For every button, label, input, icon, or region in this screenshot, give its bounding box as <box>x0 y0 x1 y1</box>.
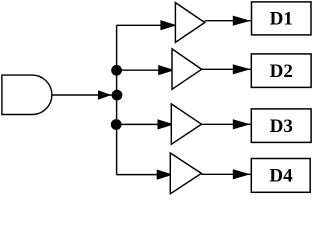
box D2 <box>251 54 311 88</box>
wire bus to buffer 4 with arrowhead <box>117 170 174 180</box>
box D4 <box>251 159 310 193</box>
wire buffer 2 to box D2 with arrowhead <box>202 64 251 74</box>
svg-text:D4: D4 <box>269 166 293 187</box>
wire buffer 3 to box D3 with arrowhead <box>202 119 251 129</box>
buffer 1 <box>175 3 204 43</box>
box D1 <box>252 2 312 35</box>
wire vertical bus <box>116 25 118 174</box>
wire bus to buffer 3 with arrowhead <box>117 119 174 129</box>
svg-text:D2: D2 <box>270 61 293 82</box>
junction dot lower <box>111 119 122 130</box>
AND gate <box>2 75 52 114</box>
wire gate output to bus with arrowhead <box>52 90 112 100</box>
box D3 <box>251 109 311 142</box>
buffer 3 <box>171 104 201 144</box>
junction dot upper <box>111 65 122 76</box>
wire bus to buffer 2 with arrowhead <box>117 65 175 75</box>
wire buffer 1 to box D1 with arrowhead <box>205 16 251 26</box>
buffer 2 <box>172 49 202 89</box>
junction dot middle input node <box>112 90 123 101</box>
wire bus to buffer 1 with arrowhead <box>117 20 177 30</box>
svg-text:D1: D1 <box>270 9 293 30</box>
wire buffer 4 to box D4 with arrowhead <box>201 169 250 179</box>
buffer 4 <box>170 153 201 194</box>
svg-text:D3: D3 <box>270 116 293 137</box>
